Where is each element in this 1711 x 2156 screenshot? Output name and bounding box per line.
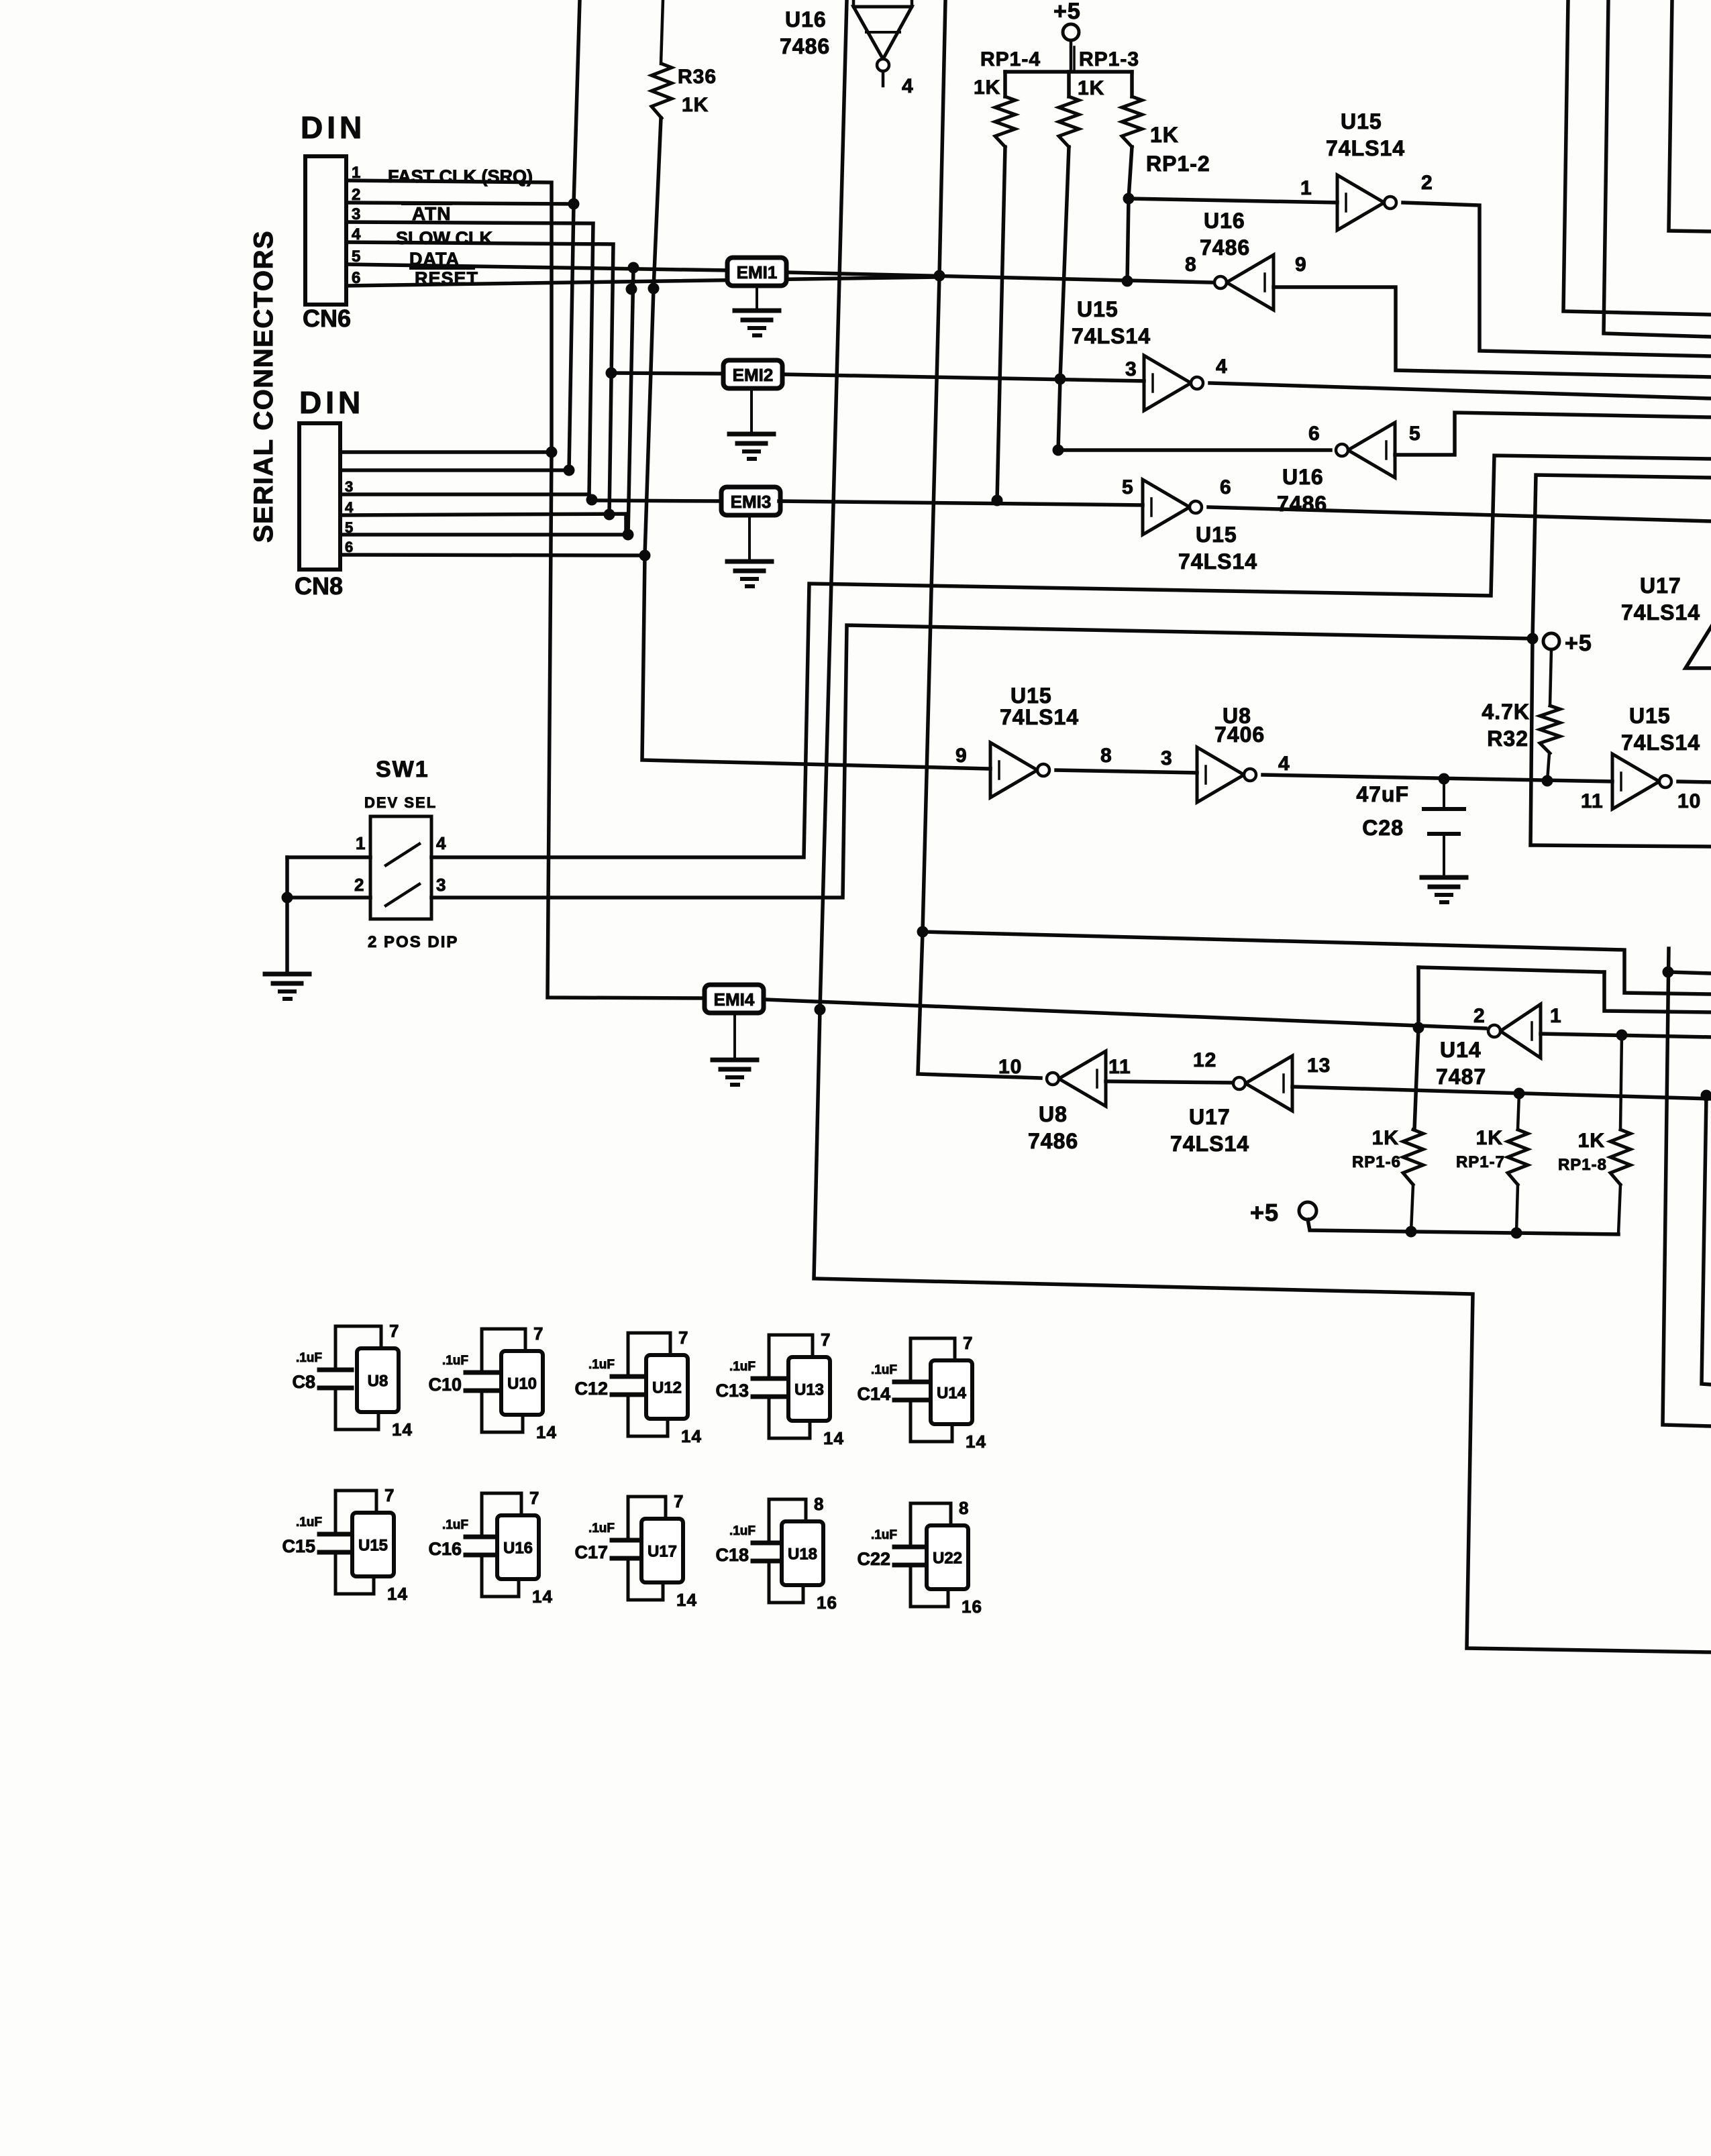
bypass capacitor C15 .1uF / U15 — [319, 1532, 352, 1537]
ground below C28 — [1422, 875, 1466, 880]
wire vertical V2540 down to right exit — [1702, 1095, 1711, 1385]
junction V4/EMI2 — [606, 368, 617, 379]
svg-text:RP1-7: RP1-7 — [1456, 1153, 1505, 1171]
CN6 pin 3 — [345, 207, 348, 222]
svg-text:C14: C14 — [857, 1384, 890, 1404]
svg-text:U15: U15 — [1629, 704, 1671, 728]
svg-text:C18: C18 — [715, 1545, 749, 1565]
svg-text:U8: U8 — [368, 1372, 388, 1391]
junction CN6 pin2 / vertical V2 — [568, 199, 580, 210]
svg-text:7: 7 — [389, 1321, 399, 1341]
wire EMI3 output to U15 pin5 — [779, 501, 1143, 505]
junction pin8 line / RP1-2 — [1122, 276, 1133, 287]
svg-text:6: 6 — [1308, 423, 1320, 445]
svg-text:2 POS DIP: 2 POS DIP — [368, 933, 458, 951]
gate U15 74LS14 9-8 — [990, 743, 1037, 798]
svg-text:7486: 7486 — [780, 34, 830, 58]
wire U16 pin5 input step — [1395, 413, 1711, 455]
wire CN6 pin4 to harness — [346, 242, 613, 515]
svg-text:7486: 7486 — [1277, 492, 1327, 516]
wire SW1 pin2 to ground rail — [287, 896, 370, 900]
wire SW1 pin4 to right bus (upper) — [431, 455, 1711, 857]
ground below EMI4 — [733, 1014, 736, 1059]
wire CN6 pin2 — [346, 203, 574, 204]
svg-text:9: 9 — [955, 745, 968, 767]
EMI filter EMI1 — [727, 258, 786, 286]
connector CN8 (DIN) — [299, 423, 340, 570]
gate U15 74LS14 1-2 — [1337, 175, 1384, 230]
junction V2481 branch — [1663, 967, 1674, 978]
svg-text:.1uF: .1uF — [296, 1515, 322, 1529]
resistor RP1-2 1K — [1130, 72, 1134, 97]
svg-text:3: 3 — [1125, 358, 1137, 380]
svg-text:U16: U16 — [1282, 465, 1324, 489]
svg-text:.1uF: .1uF — [729, 1524, 756, 1538]
resistor RP1-8 1K — [1620, 1035, 1622, 1130]
svg-text:4: 4 — [1278, 753, 1290, 775]
svg-text:U15: U15 — [358, 1537, 388, 1555]
svg-text:5: 5 — [1122, 476, 1134, 498]
svg-text:1K: 1K — [1476, 1127, 1503, 1149]
svg-text:SW1: SW1 — [376, 757, 429, 782]
junction RP1-7 bottom — [1511, 1228, 1522, 1239]
wire bus corner (x2487) — [1669, 0, 1711, 231]
junction CN8 pin1 / harness V1 — [546, 447, 558, 458]
svg-text:U13: U13 — [794, 1381, 824, 1399]
svg-text:74LS14: 74LS14 — [1000, 705, 1079, 729]
wire CN6 pin5 DATA to EMI1 — [346, 264, 727, 270]
junction RP1-6 bottom — [1406, 1226, 1417, 1238]
+5 supply (R32) — [1543, 633, 1559, 649]
svg-text:DEV SEL: DEV SEL — [364, 794, 437, 811]
junction CN8 pin4 / V4 — [604, 509, 615, 521]
CN8 pin 6 — [339, 541, 342, 555]
svg-text:74LS14: 74LS14 — [1170, 1132, 1249, 1156]
svg-text:U15: U15 — [1196, 523, 1237, 547]
wire branch at V2481 to right edge — [1668, 972, 1711, 973]
svg-text:U22: U22 — [933, 1550, 962, 1568]
CN8 pin 1 — [339, 439, 342, 452]
svg-text:4: 4 — [902, 75, 914, 97]
wire SW1 ground rail down — [285, 857, 289, 973]
EMI filter EMI2 — [723, 360, 782, 388]
wire CN6 pin1 FAST CLK to harness — [346, 180, 552, 452]
svg-text:5: 5 — [1409, 423, 1421, 445]
wire U15 pin8 to U8 pin3 — [1056, 770, 1197, 773]
CN6 pin 5 — [345, 250, 348, 264]
CN8 pin 3 — [339, 481, 342, 494]
wire U8 pin11 to U17 pin12 — [1106, 1081, 1233, 1083]
svg-text:1K: 1K — [1150, 123, 1179, 147]
bypass capacitor C12 .1uF / U12 — [612, 1375, 644, 1379]
svg-text:3: 3 — [436, 875, 446, 895]
svg-text:7487: 7487 — [1436, 1065, 1486, 1089]
wire EMI1 output to U16 pin8 — [786, 272, 1212, 282]
svg-text:14: 14 — [676, 1590, 697, 1610]
+5 supply (bottom) — [1299, 1202, 1316, 1220]
svg-text:16: 16 — [962, 1597, 982, 1617]
ground below EMI3 — [748, 515, 751, 560]
CN6 pin 2 — [345, 188, 348, 203]
wire U17 pin13 input line to right edge — [1292, 1087, 1711, 1099]
gate U14 7487 2-1 — [1500, 1004, 1541, 1058]
svg-text:.1uF: .1uF — [588, 1521, 615, 1535]
svg-text:74LS14: 74LS14 — [1621, 600, 1700, 625]
wire EMI4 output to U14 pin2 — [765, 1000, 1486, 1028]
junction RESET / V5 crossing — [626, 284, 637, 295]
junction C28 tap — [1439, 773, 1450, 785]
wire CN8 pin2 — [340, 468, 569, 472]
svg-text:RP1-2: RP1-2 — [1146, 152, 1210, 176]
svg-text:1K: 1K — [1372, 1127, 1399, 1149]
junction SW1 ground rail — [282, 892, 293, 904]
svg-text:14: 14 — [392, 1419, 413, 1440]
ground below EMI1 — [756, 286, 758, 310]
svg-text:1K: 1K — [1078, 77, 1104, 99]
resistor RP1-7 1K — [1518, 1093, 1519, 1130]
gate U16 7486 6-5 — [1348, 423, 1395, 478]
wire long bus VC (page top to U8 pin10) — [918, 0, 1041, 1078]
bypass capacitor C14 .1uF / U14 — [894, 1380, 927, 1385]
svg-text:U14: U14 — [1440, 1038, 1482, 1062]
svg-text:RP1-4: RP1-4 — [980, 48, 1041, 70]
gate U16 7486 pin4 (down inverter) — [852, 0, 855, 7]
svg-text:13: 13 — [1307, 1055, 1331, 1077]
junction EMI1 line / vertical VC — [934, 270, 945, 282]
svg-text:DIN: DIN — [301, 110, 366, 145]
gate U15 74LS14 5-6 — [1143, 480, 1190, 535]
svg-text:U17: U17 — [1189, 1105, 1231, 1129]
svg-text:U17: U17 — [1640, 574, 1681, 598]
svg-text:SLOW CLK: SLOW CLK — [396, 228, 492, 248]
wire CN8 pin4 with link to pin5 — [340, 514, 626, 535]
wire harness V1 down to EMI4 feed — [548, 452, 705, 998]
wire EMI2 output to U15 pin3 — [782, 374, 1144, 381]
svg-text:R32: R32 — [1487, 726, 1528, 751]
junction RP1-3 / U16 pin6 output — [1053, 445, 1064, 456]
svg-text:7: 7 — [384, 1485, 395, 1505]
svg-text:U15: U15 — [1077, 297, 1119, 321]
svg-text:.1uF: .1uF — [442, 1354, 468, 1368]
svg-text:7486: 7486 — [1028, 1129, 1078, 1153]
svg-text:RP1-8: RP1-8 — [1558, 1156, 1607, 1174]
resistor RP1-4 1K — [1003, 72, 1007, 97]
junction CN8 pin6 — [639, 550, 651, 561]
svg-text:C12: C12 — [574, 1379, 608, 1399]
EMI filter EMI3 — [721, 487, 780, 515]
bypass capacitor C17 .1uF / U17 — [612, 1538, 644, 1543]
resistor RP1-6 1K — [1403, 1130, 1423, 1185]
svg-text:4: 4 — [436, 833, 446, 853]
resistor R36 1K — [661, 0, 663, 64]
bypass capacitor C16 .1uF / U16 — [466, 1535, 498, 1540]
connector CN6 (DIN) — [305, 156, 346, 305]
wire U15 pin4 output to right edge — [1210, 383, 1711, 398]
svg-text:9: 9 — [1295, 254, 1307, 276]
wire CN8 pin1 — [340, 450, 552, 454]
svg-text:8: 8 — [814, 1494, 824, 1514]
svg-text:74LS14: 74LS14 — [1326, 136, 1405, 160]
svg-text:R36: R36 — [678, 66, 717, 88]
bypass capacitor C10 .1uF / U10 — [466, 1370, 498, 1375]
svg-text:EMI4: EMI4 — [714, 989, 755, 1010]
svg-text:C17: C17 — [574, 1542, 608, 1562]
svg-text:U14: U14 — [937, 1385, 967, 1403]
svg-text:U16: U16 — [785, 7, 827, 32]
gate U17 74LS14 (partial at right edge) — [1686, 624, 1711, 668]
gate U8 7486 10-11 — [1059, 1051, 1106, 1106]
CN8 pin 5 — [339, 522, 342, 535]
svg-text:RP1-6: RP1-6 — [1352, 1153, 1401, 1171]
gate U15 74LS14 3-4 — [1144, 356, 1191, 411]
junction EMI4 line / long bus VB — [815, 1004, 826, 1016]
wire bus corner (x2332) — [1563, 0, 1711, 315]
svg-text:CN8: CN8 — [295, 572, 343, 600]
svg-text:7406: 7406 — [1214, 722, 1265, 747]
svg-text:U17: U17 — [647, 1543, 677, 1561]
svg-text:8: 8 — [1185, 254, 1197, 276]
CN8 pin 4 — [339, 502, 342, 515]
svg-text:10: 10 — [998, 1056, 1022, 1078]
svg-text:14: 14 — [823, 1428, 844, 1448]
resistor R32 4.7K — [1550, 649, 1551, 706]
junction V2540 / pin13 line — [1701, 1090, 1711, 1101]
svg-text:7: 7 — [678, 1328, 688, 1348]
wire U14 step vertical — [1414, 967, 1418, 1130]
svg-text:8: 8 — [959, 1498, 969, 1518]
resistor RP1-3 1K — [1067, 72, 1071, 97]
junction V3/EMI3 — [586, 494, 598, 506]
wire U16 pin9 input step — [1274, 287, 1711, 377]
CN6 pin 6 — [345, 271, 348, 286]
svg-text:3: 3 — [1161, 747, 1173, 769]
junction EMI4 line / U14 step vertical — [1413, 1022, 1424, 1034]
wire SW1 pin3 to right bus (lower) — [431, 625, 1533, 898]
wire U14 pin1 input line — [1541, 1034, 1711, 1037]
svg-text:7: 7 — [963, 1333, 973, 1353]
CN8 pin 2 — [339, 457, 342, 470]
wire RP1 common bus — [1005, 70, 1132, 74]
EMI filter EMI4 — [705, 985, 764, 1013]
svg-text:7: 7 — [533, 1324, 543, 1344]
svg-text:4: 4 — [1216, 356, 1228, 378]
wire U15 pin6 output to right edge — [1208, 507, 1711, 521]
+5 supply (top) — [1063, 24, 1079, 40]
svg-text:U12: U12 — [652, 1379, 682, 1397]
svg-text:1K: 1K — [682, 94, 709, 116]
wire into EMI2 from harness — [611, 373, 723, 374]
svg-text:EMI2: EMI2 — [733, 365, 774, 385]
junction CN8 pin2 — [564, 465, 575, 476]
wire U16 pin6 output to RP1-3 vertical — [1058, 448, 1331, 452]
svg-text:SERIAL CONNECTORS: SERIAL CONNECTORS — [249, 230, 278, 543]
svg-text:14: 14 — [532, 1586, 553, 1607]
svg-text:8: 8 — [1100, 745, 1112, 767]
svg-text:47uF: 47uF — [1356, 782, 1409, 806]
wire +5 rail to RP1 bottoms — [1308, 1220, 1618, 1234]
svg-text:C8: C8 — [292, 1372, 315, 1392]
svg-text:4.7K: 4.7K — [1482, 700, 1530, 724]
wire CN8 pin3 — [340, 492, 589, 496]
bypass capacitor C8 .1uF / U8 — [319, 1368, 352, 1372]
svg-text:+5: +5 — [1053, 0, 1081, 24]
wire CN6 pin3 to harness — [346, 222, 593, 494]
svg-text:14: 14 — [966, 1432, 986, 1452]
wire vertical V2481 down to right exit — [1663, 949, 1711, 1426]
svg-text:.1uF: .1uF — [729, 1360, 756, 1374]
svg-text:6: 6 — [1220, 476, 1232, 498]
gate U8 7406 3-4 — [1197, 747, 1244, 802]
wire CN8 pin6 to vertical — [340, 555, 645, 555]
svg-text:74LS14: 74LS14 — [1621, 731, 1700, 755]
svg-text:U16: U16 — [503, 1540, 533, 1558]
svg-text:+5: +5 — [1250, 1199, 1279, 1226]
gate U16 7486 8-9 — [1227, 255, 1274, 310]
junction VC / long line — [917, 926, 929, 938]
ground below EMI2 — [750, 388, 753, 433]
svg-text:U15: U15 — [1341, 109, 1382, 133]
svg-text:10: 10 — [1677, 790, 1701, 812]
junction RP1-3 on CLK line — [1055, 374, 1066, 385]
wire harness V2 from page top to CN8 pin2 — [569, 0, 580, 470]
wire SW1 pin1 to ground rail — [287, 855, 370, 859]
wire U8 pin4 output to U15 pin11 — [1263, 775, 1612, 781]
svg-text:14: 14 — [387, 1584, 408, 1604]
junction RP1-7 top — [1514, 1088, 1525, 1099]
bypass capacitor C18 .1uF / U18 — [753, 1541, 785, 1546]
wire U15 pin2 output step to right — [1403, 203, 1711, 356]
junction SW1 pin3 / shared bus vertical — [1527, 633, 1539, 645]
svg-text:U10: U10 — [507, 1375, 537, 1393]
svg-text:CN6: CN6 — [303, 305, 351, 332]
svg-text:2: 2 — [354, 875, 364, 895]
wire step to right edge (lower) — [1604, 972, 1711, 1012]
svg-text:DIN: DIN — [299, 385, 364, 420]
svg-text:1K: 1K — [1578, 1130, 1605, 1152]
gate U15 74LS14 11-10 — [1612, 754, 1659, 809]
svg-text:74LS14: 74LS14 — [1178, 549, 1257, 574]
svg-text:7: 7 — [529, 1488, 539, 1508]
wire U15 pin10 output to right edge — [1678, 781, 1711, 782]
wire long bus VB (page top to bottom right) — [814, 0, 1711, 1652]
svg-text:C16: C16 — [428, 1539, 462, 1559]
svg-text:2: 2 — [1421, 172, 1433, 194]
svg-text:1: 1 — [1300, 177, 1312, 199]
junction CN8 pin5 / V5 — [623, 529, 634, 541]
svg-text:.1uF: .1uF — [871, 1528, 897, 1542]
svg-text:U8: U8 — [1039, 1102, 1068, 1126]
CN6 pin 1 — [345, 166, 348, 180]
svg-text:C22: C22 — [857, 1549, 890, 1569]
gate U17 74LS14 12-13 — [1245, 1056, 1292, 1111]
svg-text:14: 14 — [681, 1426, 702, 1446]
junction RP1-8 top — [1616, 1030, 1628, 1041]
svg-text:1K: 1K — [974, 76, 1000, 99]
svg-text:.1uF: .1uF — [442, 1518, 468, 1532]
svg-text:U16: U16 — [1204, 209, 1245, 233]
svg-text:.1uF: .1uF — [871, 1363, 897, 1377]
svg-text:14: 14 — [536, 1422, 557, 1442]
svg-text:11: 11 — [1581, 790, 1604, 812]
svg-text:U15: U15 — [1010, 684, 1052, 708]
bypass capacitor C13 .1uF / U13 — [753, 1377, 785, 1381]
wire shared bus vertical x2285 with right exits — [1531, 475, 1711, 847]
svg-text:1: 1 — [1550, 1005, 1562, 1027]
junction DATA / harness V5 — [628, 262, 639, 274]
svg-text:6: 6 — [345, 539, 354, 555]
bypass capacitor C22 .1uF / U22 — [894, 1545, 927, 1550]
wire U14 step horizontal — [1418, 967, 1604, 972]
svg-text:U18: U18 — [788, 1546, 817, 1564]
svg-text:.1uF: .1uF — [588, 1358, 615, 1372]
svg-text:RP1-3: RP1-3 — [1079, 48, 1139, 70]
wire bus corner (x2392) — [1604, 0, 1711, 337]
svg-text:+5: +5 — [1565, 631, 1592, 656]
svg-text:7486: 7486 — [1200, 235, 1250, 260]
wire into EMI3 from harness — [591, 500, 721, 501]
wire U15 pin1 input — [1129, 199, 1337, 203]
CN6 pin 4 — [345, 227, 348, 242]
svg-text:EMI3: EMI3 — [731, 492, 772, 512]
junction RESET / R36 — [648, 283, 660, 294]
wire harness V5 down to CN8 pin5 — [628, 268, 633, 535]
ground below SW1 — [265, 972, 309, 977]
svg-text:C13: C13 — [715, 1381, 749, 1401]
svg-text:74LS14: 74LS14 — [1072, 324, 1151, 348]
junction RP1-2 / U15 pin1 line — [1123, 193, 1135, 205]
svg-text:1: 1 — [356, 833, 366, 853]
svg-text:16: 16 — [817, 1593, 837, 1613]
junction RP1-4 vertical end — [992, 495, 1003, 506]
svg-text:C28: C28 — [1362, 816, 1404, 840]
svg-text:11: 11 — [1108, 1056, 1131, 1078]
wire long line from VC junction stepping to right edge — [923, 932, 1711, 994]
svg-text:7: 7 — [674, 1491, 684, 1511]
svg-text:C10: C10 — [428, 1375, 462, 1395]
svg-text:.1uF: .1uF — [296, 1351, 322, 1365]
svg-text:2: 2 — [1473, 1005, 1486, 1027]
junction R32 tap — [1542, 775, 1553, 787]
svg-text:12: 12 — [1193, 1049, 1216, 1071]
svg-text:EMI1: EMI1 — [737, 262, 778, 282]
switch SW1 2 POS DIP — [370, 816, 431, 919]
wire CN6 pin6 RESET line — [346, 277, 937, 286]
svg-text:C15: C15 — [282, 1536, 315, 1556]
svg-text:7: 7 — [821, 1330, 831, 1350]
